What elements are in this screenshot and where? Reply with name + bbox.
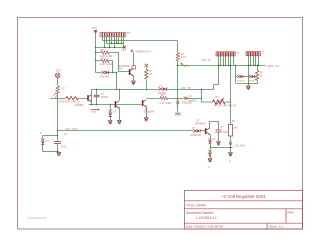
svg-text:D?: D? (189, 96, 193, 99)
transistor Q5 (143, 100, 155, 114)
wire Q1 collector up (133, 53, 135, 66)
connector J1 (216, 51, 239, 56)
diode D4 (190, 127, 205, 137)
svg-text:Q?: Q? (119, 66, 123, 70)
svg-text:DS?: DS? (56, 68, 62, 72)
svg-text:GND: GND (91, 110, 97, 113)
svg-text:+5V_TP: +5V_TP (181, 86, 191, 90)
svg-text:TP: TP (64, 133, 67, 136)
svg-text:1N5817: 1N5817 (237, 80, 245, 82)
svg-text:10/16: 10/16 (223, 131, 230, 134)
RN1 pin wires (103, 37, 124, 48)
svg-text:REV:: REV: (288, 211, 295, 215)
svg-text:NC?: NC? (122, 49, 128, 52)
wire VCC stem and left rail (95, 33, 96, 73)
ground below Q1 (131, 76, 135, 85)
lamp DS1 (55, 68, 61, 77)
title block text (186, 194, 295, 229)
svg-text:1N5231B: 1N5231B (182, 102, 192, 105)
svg-text:D?: D? (213, 140, 217, 142)
wire lower-left row (89, 104, 142, 105)
svg-text:J?: J? (262, 51, 265, 55)
svg-text:2.2K 1/4W: 2.2K 1/4W (100, 62, 113, 66)
probe Vbe (181, 63, 191, 68)
resistor R9 (159, 94, 172, 105)
wire right rail vertical (230, 65, 231, 125)
svg-text:C?: C? (220, 126, 224, 129)
svg-text:1K: 1K (149, 73, 152, 76)
resistor R8 (51, 97, 88, 104)
wire Q4 emitter to ground (117, 108, 121, 124)
wire LDR down (57, 94, 58, 100)
svg-text:TITLE: 0024A: TITLE: 0024A (186, 204, 207, 208)
svg-text:R?: R? (232, 120, 236, 123)
wire row98 (147, 98, 202, 99)
resistor R3 (145, 64, 153, 91)
power flag VCC (92, 26, 98, 33)
test point TP1 (132, 66, 135, 69)
svg-text:1N4148: 1N4148 (100, 74, 110, 78)
svg-text:D?: D? (113, 111, 117, 114)
svg-text:Vbe: Vbe (185, 65, 190, 68)
diode D8 (235, 65, 249, 84)
diode D7 (41, 136, 49, 152)
wire main mid (92, 65, 220, 90)
title block (185, 190, 303, 229)
svg-text:1.25_ADJ: 1.25_ADJ (233, 144, 245, 148)
diode D6 (184, 96, 198, 103)
wire +5V_OUT (58, 127, 194, 131)
diode D3 (108, 105, 117, 125)
ground cluster (246, 84, 250, 90)
wire Q5 emitter ground (144, 107, 148, 122)
wire top rail (103, 40, 178, 42)
svg-text:240: 240 (233, 127, 238, 130)
wire lamp to LDR (57, 78, 59, 86)
svg-text:+BAT_IN?: +BAT_IN? (267, 64, 280, 68)
capacitor C1 (94, 90, 109, 105)
svg-text:1-C9-0024-0-1: 1-C9-0024-0-1 (196, 216, 217, 220)
wire Q2 collector (210, 122, 219, 130)
svg-text:R?: R? (127, 31, 131, 35)
wire R2 down (112, 61, 113, 74)
ground bottom-left (57, 152, 61, 156)
resistor R1 (96, 48, 119, 58)
svg-text:CW 1 5K DELAY: CW 1 5K DELAY (217, 103, 237, 107)
wire pot to rail (226, 101, 232, 102)
diode D5 (229, 142, 232, 148)
svg-text:D?: D? (192, 127, 196, 130)
svg-text:R?: R? (215, 95, 219, 99)
wire bus B (96, 47, 126, 48)
wire +5V_IN rail (178, 58, 281, 68)
resistor R2 (96, 57, 113, 67)
wire mid corner to pot (201, 89, 213, 102)
svg-text:1N5231B: 1N5231B (190, 134, 201, 137)
connector J2 (246, 51, 265, 56)
capacitor C2 (216, 126, 230, 145)
svg-text:Document Number:: Document Number: (186, 211, 214, 215)
wire diode cluster bottom (237, 83, 258, 84)
wire TP row (43, 133, 68, 136)
svg-text:2N3904A: 2N3904A (144, 110, 155, 113)
svg-text:R?: R? (100, 57, 104, 61)
diode D1 (96, 71, 117, 79)
zener Z1 (208, 135, 216, 148)
transistor Q4 (115, 101, 119, 108)
svg-text:CDS 10K 1/4W: CDS 10K 1/4W (59, 99, 77, 103)
potentiometer R5 (213, 95, 237, 107)
resistor network RN1 (100, 31, 131, 37)
page frame (18, 18, 303, 230)
svg-text:J?: J? (39, 132, 42, 135)
resistor R6 (228, 120, 238, 142)
wire D1 row down (116, 72, 117, 90)
svg-text:R?: R? (100, 48, 104, 52)
transistor Q1 (119, 64, 134, 76)
wire ADJ (210, 144, 246, 149)
wire left column down (57, 99, 58, 142)
wire Q3 vertical (91, 90, 93, 105)
probe arrow (91, 109, 100, 114)
svg-text:2N3904A: 2N3904A (195, 121, 206, 125)
wire R4 junction down (177, 66, 179, 99)
wire R1 to Q1 base (119, 53, 130, 72)
svg-text:VCC: VCC (92, 26, 98, 30)
svg-text:UNREGOUT: UNREGOUT (135, 49, 152, 53)
svg-text:2N3906: 2N3906 (75, 104, 84, 107)
svg-text:J?: J? (236, 51, 239, 55)
photocell R7 (53, 86, 65, 98)
diode D9 (248, 65, 257, 84)
svg-text:Date: 4/2/2017 2:09:48 PM: Date: 4/2/2017 2:09:48 PM (186, 225, 223, 229)
svg-text:D?: D? (46, 141, 50, 143)
svg-text:Sheet: 1/1: Sheet: 1/1 (269, 225, 283, 229)
svg-text:47/16: 47/16 (61, 146, 68, 149)
J1 pin wires (218, 57, 234, 67)
svg-text:R?: R? (260, 72, 264, 74)
svg-text:100/16: 100/16 (100, 96, 108, 99)
capacitor C3 (54, 142, 67, 152)
svg-text:+5V_IN: +5V_IN (201, 58, 210, 62)
transistor Q3 (75, 95, 92, 107)
wire bottom-left (43, 151, 59, 152)
wire Q4 collector (119, 90, 121, 101)
transistor Q2 (195, 119, 210, 135)
svg-text:1K: 1K (260, 75, 263, 77)
svg-text:+5V_OUT: +5V_OUT (65, 127, 78, 131)
svg-text:+5 Volt Regulator 0024: +5 Volt Regulator 0024 (222, 194, 266, 199)
no-connect X (122, 46, 128, 52)
svg-text:SCAN-0024-001: SCAN-0024-001 (28, 216, 48, 220)
resistor R10 (255, 65, 263, 84)
svg-text:1N5817: 1N5817 (248, 80, 256, 82)
ground ADJ (228, 148, 232, 163)
zener chain ZC1 (175, 99, 192, 116)
zener Z2 (208, 148, 212, 170)
svg-text:0: 0 (229, 160, 231, 163)
svg-text:0: 0 (208, 166, 210, 169)
diode D2 (158, 86, 167, 95)
resistor R4 (176, 41, 186, 67)
svg-text:4.7K: 4.7K (181, 56, 186, 59)
net label UNREGOUT (131, 49, 152, 53)
svg-text:2.7K 1/4W: 2.7K 1/4W (159, 101, 172, 105)
wire bus A (107, 43, 124, 44)
J2 pin wires (248, 56, 259, 67)
svg-text:R?: R? (62, 88, 66, 91)
